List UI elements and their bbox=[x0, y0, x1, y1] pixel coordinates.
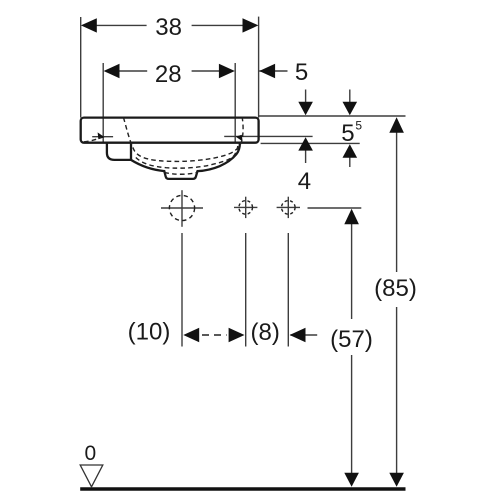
svg-text:(85): (85) bbox=[374, 275, 417, 302]
svg-text:(57): (57) bbox=[330, 326, 373, 353]
svg-text:38: 38 bbox=[155, 14, 182, 41]
svg-text:(10): (10) bbox=[128, 319, 171, 346]
svg-text:5: 5 bbox=[355, 119, 362, 133]
svg-text:0: 0 bbox=[84, 442, 96, 465]
svg-text:4: 4 bbox=[298, 168, 311, 195]
svg-text:5: 5 bbox=[295, 59, 308, 86]
svg-text:28: 28 bbox=[155, 61, 182, 88]
svg-text:(8): (8) bbox=[251, 319, 280, 346]
svg-text:5: 5 bbox=[341, 120, 354, 147]
